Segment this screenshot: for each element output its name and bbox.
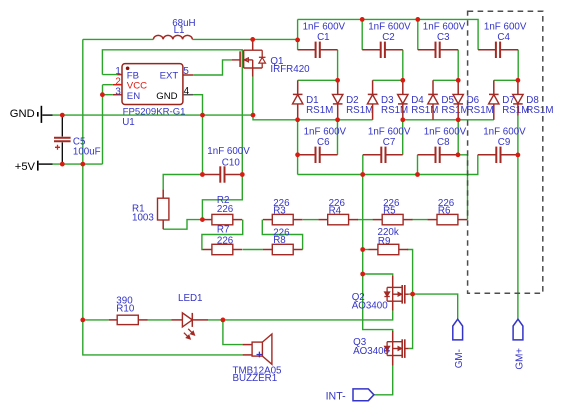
diode D1 (297, 80, 299, 94)
junction Q2 drain (360, 272, 365, 277)
wire top drive bus (298, 19, 479, 49)
junction bus2 / C7 left (360, 172, 365, 177)
svg-text:RS1M: RS1M (381, 105, 408, 116)
wire EXT to Q1 gate (193, 60, 232, 75)
svg-text:RS1M: RS1M (411, 105, 438, 116)
wire R7 right to R8 left (243, 249, 263, 251)
wire C2 left drop (361, 19, 363, 49)
diode D8 (517, 80, 519, 94)
svg-text:C10: C10 (222, 157, 241, 168)
junction LED1 / buzzer (221, 318, 226, 323)
svg-text:3: 3 (115, 86, 121, 97)
junction VCC-EN (100, 92, 105, 97)
junction C8 right (456, 152, 461, 157)
capacitor C2 (362, 49, 381, 51)
wire C6 right to D2 bottom (337, 120, 339, 155)
svg-text:RS1M: RS1M (346, 105, 373, 116)
buzzer BUZZER1 TMB12A05 (252, 342, 262, 356)
wire C3 left drop (417, 19, 419, 49)
svg-text:C3: C3 (437, 32, 450, 43)
junction D4 top / C2 right (400, 78, 405, 83)
wire GND bus (298, 155, 478, 175)
resistor R4 (318, 219, 327, 221)
wire diode bottom line right (403, 119, 494, 121)
junction GND/C5 top (60, 113, 65, 118)
svg-text:1nF 600V: 1nF 600V (484, 21, 527, 32)
svg-text:IRFR420: IRFR420 (270, 64, 310, 75)
capacitor C8 (418, 154, 436, 156)
svg-text:R10: R10 (116, 303, 135, 314)
diode D6 (457, 80, 459, 94)
capacitor C5 (61, 115, 63, 136)
svg-text:1nF 600V: 1nF 600V (303, 21, 346, 32)
wire R5-R6 (412, 219, 428, 221)
ground symbol GND (37, 112, 39, 117)
wire gate node to GM- flag (413, 294, 458, 319)
wire gate node to Q3 gate (409, 294, 413, 348)
wire C3 right to D6 top (457, 50, 459, 81)
junction D8 top / C4 right (516, 78, 521, 83)
svg-text:RS1M: RS1M (467, 105, 494, 116)
wire C10 right to R2 node (202, 175, 242, 220)
wire U1 pin4 to GND line (193, 95, 203, 115)
svg-text:R7: R7 (217, 225, 230, 236)
junction rail / C1 left (295, 38, 300, 43)
resistor R2 (203, 219, 212, 221)
wire D8 bottom to C9 right to GM+ (517, 116, 519, 320)
svg-text:L1: L1 (174, 25, 185, 36)
wire C10 left to R1 top (163, 175, 202, 190)
capacitor C9 (478, 154, 497, 156)
junction bus / C2 left (360, 17, 365, 22)
svg-text:1nF 600V: 1nF 600V (368, 21, 411, 32)
wire FB net: pin1 to C10 right (102, 50, 242, 175)
svg-text:C6: C6 (317, 137, 330, 148)
junction R10 left (80, 318, 85, 323)
wire D3-D4 top segment (373, 79, 403, 81)
flag GM- (453, 319, 463, 340)
svg-text:C9: C9 (498, 137, 511, 148)
diode D7 (493, 80, 495, 94)
svg-text:1nF 600V: 1nF 600V (423, 21, 466, 32)
capacitor C6 (298, 154, 316, 156)
diode D5 (432, 80, 434, 94)
wire GND net drop from pin4 line to C10 left (202, 115, 204, 174)
svg-text:R3: R3 (273, 206, 286, 217)
resistor R7 (203, 249, 212, 251)
wire R8 right to R3 left jog (262, 220, 302, 250)
LED LED1 (171, 319, 182, 321)
junction bus / C3 left (415, 17, 420, 22)
junction L1 / Q1 drain (250, 37, 255, 42)
wire Q2 drain tap (363, 274, 393, 276)
junction D6 bottom (456, 117, 461, 122)
svg-text:RS1M: RS1M (306, 105, 333, 116)
svg-text:1003: 1003 (132, 213, 154, 224)
capacitor C10 (202, 174, 220, 176)
svg-text:C8: C8 (437, 137, 450, 148)
wire C8 right / D6 bottom to R6 right (458, 155, 468, 220)
junction GND line / Q1 source (251, 113, 256, 118)
svg-text:AO3400: AO3400 (352, 300, 389, 311)
svg-text:GND: GND (156, 91, 177, 102)
flag GM+ (513, 319, 523, 340)
svg-text:1nF 600V: 1nF 600V (207, 146, 250, 157)
wire R3-R4 (303, 219, 319, 221)
junction bus2 / C8 left (415, 172, 420, 177)
supply symbol +5V (37, 161, 39, 171)
resistor R10 (109, 319, 118, 321)
diode D3 (372, 80, 374, 94)
wire D5-D6 top segment (433, 79, 458, 81)
svg-text:FP5209KR-G1: FP5209KR-G1 (123, 107, 186, 118)
wire LED/R10 row to Q2 source (83, 311, 393, 320)
resistor R5 (373, 219, 382, 221)
flag INT- (353, 389, 374, 401)
wire +5V rail (39, 163, 53, 165)
transistor Q3 AO3400 (392, 331, 394, 342)
resistor R6 (428, 219, 437, 221)
resistor R8 (263, 249, 272, 251)
capacitor C3 (418, 49, 436, 51)
capacitor C7 (363, 154, 382, 156)
junction D2 top / C1 right (335, 78, 340, 83)
wire Q3 source to INT- flag (374, 366, 393, 395)
junction +5V/C5 bottom (60, 162, 65, 167)
junction C10 right / FB (240, 172, 245, 177)
svg-text:1nF 600V: 1nF 600V (424, 126, 467, 137)
svg-text:1nF 600V: 1nF 600V (304, 126, 347, 137)
capacitor C1 (298, 49, 316, 51)
wire +5V to L1 and buzzer (left riser) (83, 39, 243, 355)
wire R4-R5 (357, 219, 373, 221)
svg-text:LED1: LED1 (178, 293, 203, 304)
svg-text:U1: U1 (122, 117, 135, 128)
wire diode bottom line left (298, 119, 373, 121)
junction D1 bottom (295, 117, 300, 122)
junction +5V / left riser (80, 162, 85, 167)
svg-text:C7: C7 (383, 137, 396, 148)
wire LED node down to buzzer top (223, 320, 243, 345)
svg-text:4: 4 (184, 86, 190, 97)
wire C1 right to D2 top (337, 50, 339, 81)
junction GND line / pin4 (200, 113, 205, 118)
svg-text:1nF 600V: 1nF 600V (368, 126, 411, 137)
wire L1 to Q1 drain node (192, 38, 297, 40)
svg-text:R5: R5 (383, 206, 396, 217)
wire center drop: bus to R9/Q2/Q3 drains (363, 175, 393, 332)
svg-text:100uF: 100uF (73, 147, 101, 158)
transistor Q1 IRFR420 (252, 39, 254, 50)
wire R2 right to R7 left jog (202, 220, 243, 250)
wire R9 left tap (363, 249, 369, 251)
wire C8 left drop to bus (417, 155, 419, 175)
junction D4 bottom / C7 right (400, 117, 405, 122)
junction C10 left / R1 top (200, 172, 205, 177)
diode D4 (402, 80, 404, 94)
wire Q2 gate tap (409, 293, 413, 295)
wire C7 left drop to bus (362, 155, 364, 175)
svg-text:INT-: INT- (326, 390, 346, 402)
svg-text:EN: EN (127, 91, 140, 102)
dashed module outline (468, 11, 543, 293)
wire C7 right to D4 bottom (402, 120, 404, 155)
wire VCC/EN riser (103, 85, 113, 164)
svg-text:AO3400: AO3400 (353, 346, 390, 357)
IC U1 FP5209KR-G1 (122, 64, 183, 105)
inductor L1 (153, 35, 192, 39)
wire D1 bottom to C6 left to GND bus (297, 120, 299, 175)
svg-text:R8: R8 (273, 235, 286, 246)
junction D2 bottom / C6 right (335, 117, 340, 122)
wire C2 right to D4 top (402, 50, 404, 81)
wire D6 bottom drop to C8 right (457, 120, 459, 155)
wire drive bus vertical at C1 (297, 19, 299, 49)
svg-text:RS1M: RS1M (441, 105, 468, 116)
svg-text:C4: C4 (497, 32, 510, 43)
svg-text:GM-: GM- (454, 349, 465, 368)
svg-text:R9: R9 (378, 236, 391, 247)
junction D6 top / C3 right (456, 78, 461, 83)
svg-text:1nF 600V: 1nF 600V (483, 126, 526, 137)
junction R9 left (360, 247, 365, 252)
svg-text:EXT: EXT (160, 70, 179, 81)
wire R1 bottom to R2 node (163, 220, 202, 230)
svg-text:R4: R4 (329, 206, 342, 217)
junction R1 bottom / R2 left (200, 217, 205, 222)
wire D7-D8 top segment (494, 79, 519, 81)
svg-text:226: 226 (217, 236, 234, 247)
junction C9 right / D8 bottom (516, 153, 521, 158)
junction C6 left (295, 152, 300, 157)
wire Q1 source to GND line and D1 anode (253, 77, 298, 120)
wire C4 right to D8 top (517, 50, 519, 81)
svg-text:R6: R6 (438, 206, 451, 217)
svg-text:+5V: +5V (15, 161, 36, 173)
svg-text:C1: C1 (317, 32, 330, 43)
junction gate node (410, 292, 415, 297)
svg-text:5: 5 (183, 66, 189, 77)
resistor R3 (263, 219, 272, 221)
transistor Q2 AO3400 (392, 276, 394, 287)
svg-text:RS1M: RS1M (526, 105, 553, 116)
svg-text:GND: GND (10, 108, 35, 120)
diode D2 (337, 80, 339, 94)
resistor R9 (369, 249, 378, 251)
capacitor C4 (478, 49, 496, 51)
wire GND line (42, 114, 52, 116)
svg-text:GM+: GM+ (515, 348, 526, 370)
wire R9 right to gate node (407, 250, 412, 295)
svg-text:C2: C2 (382, 32, 395, 43)
wire D1-D2 top segment (298, 79, 338, 81)
resistor R1 (162, 189, 164, 198)
svg-text:226: 226 (217, 204, 234, 215)
svg-text:BUZZER1: BUZZER1 (233, 373, 278, 384)
